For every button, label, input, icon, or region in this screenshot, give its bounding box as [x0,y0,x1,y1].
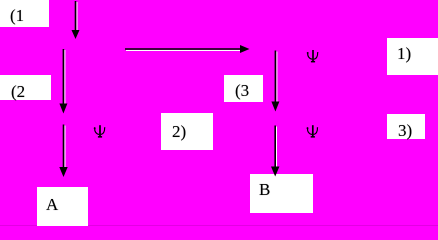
label box (1 [0,0,49,27]
text 1) [397,45,411,62]
text 2) [172,123,186,140]
arrow down 5 (right bottom, to B) [271,126,279,177]
label box A [37,187,88,226]
arrow down 2 (left middle) [59,49,67,114]
label box 3) [387,114,425,139]
bottom edge scan band [0,225,438,226]
label box (3 [224,75,263,102]
label box 2) [161,113,213,150]
psi symbol 1 [307,50,319,62]
arrow down 4 (right middle) [271,51,279,112]
psi symbol 3 [307,125,319,137]
text (3 [235,82,249,99]
psi symbol 2 [94,125,106,137]
label box (2 [0,75,51,100]
label box B [250,174,313,213]
label box 1) [387,38,438,75]
text B [259,181,270,198]
arrow right (horizontal) [125,45,250,53]
text (1 [10,7,24,24]
arrow down 1 (top left) [72,1,80,39]
arrow down 3 (left bottom, to A) [59,125,67,178]
text 3) [398,122,412,139]
text (2 [11,83,25,100]
text A [46,196,58,213]
